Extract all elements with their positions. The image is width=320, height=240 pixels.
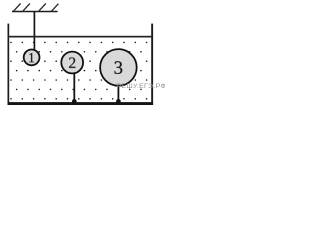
ceiling hatch marks: [14, 4, 59, 12]
string from ball 3 to bottom: [117, 85, 119, 103]
container bottom: [8, 102, 154, 105]
string from ceiling to ball 1: [33, 12, 35, 51]
label 2: [69, 57, 75, 67]
label 3: [115, 61, 123, 74]
ball 3: [100, 49, 137, 86]
water dots (liquid pattern): [10, 42, 147, 100]
container right wall: [151, 24, 153, 105]
ball 2: [61, 52, 83, 74]
string from ball 2 to bottom: [73, 73, 75, 103]
svg-text:РЕШУ.ЕГЭ.РФ: РЕШУ.ЕГЭ.РФ: [117, 83, 165, 90]
anchor dot of string 2: [72, 99, 77, 104]
ball 1: [24, 50, 40, 66]
ceiling support line: [12, 11, 58, 13]
anchor dot of string 3: [116, 99, 121, 104]
label 1: [29, 53, 34, 62]
water surface line: [8, 36, 154, 38]
container left wall: [8, 24, 10, 105]
